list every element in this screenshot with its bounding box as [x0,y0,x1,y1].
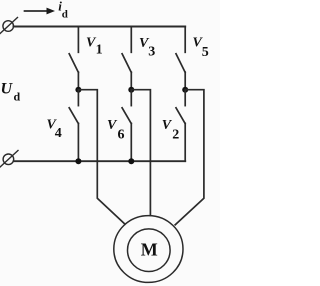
source terminal bottom (circle with slash) [0,151,18,169]
label V1 [86,36,103,58]
svg-text:M: M [141,240,158,260]
svg-text:V: V [162,118,173,133]
label V2 [162,118,180,143]
wire: phase B branch [131,90,150,216]
svg-text:U: U [1,81,14,98]
svg-text:6: 6 [118,128,125,143]
svg-text:1: 1 [96,43,103,58]
svg-text:d: d [62,9,68,21]
label V5 [193,36,209,60]
label U_d [1,81,21,104]
svg-text:d: d [14,90,21,104]
wire: top DC bus [14,26,186,28]
thyristor V5 (switch) [176,27,185,90]
junction dot leg2 / bottom bus [128,158,134,164]
junction dot leg1 / bottom bus [75,158,81,164]
svg-text:2: 2 [172,128,179,143]
label V4 [47,117,62,141]
thyristor V6 (switch) [122,90,131,162]
node A (junction dot leg1) [75,87,81,93]
svg-text:V: V [107,118,118,133]
thyristor V1 (switch) [69,27,78,90]
label V6 [107,118,125,143]
svg-text:5: 5 [202,45,209,60]
node C (junction dot leg3) [182,87,188,93]
node B (junction dot leg2) [128,87,134,93]
wire: bottom DC bus [14,160,186,162]
thyristor V2 (switch) [176,90,185,162]
label V3 [139,36,155,59]
motor M outer circle [114,216,183,283]
wire: phase A branch [78,90,125,225]
svg-text:4: 4 [55,126,62,141]
current direction arrow id [25,8,56,15]
thyristor V3 (switch) [122,27,131,90]
label i_d [58,0,68,21]
wire: phase C branch [175,90,204,225]
svg-text:3: 3 [148,44,155,59]
motor M inner circle [128,229,171,272]
thyristor V4 (switch) [69,90,78,162]
source terminal top (circle with slash) [0,18,18,35]
